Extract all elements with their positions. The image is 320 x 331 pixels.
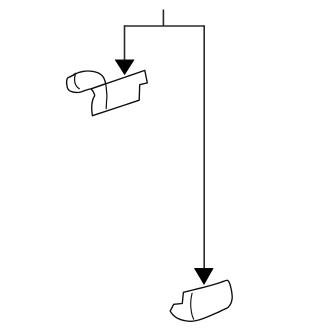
plate fold line [106, 84, 107, 109]
arrowhead left [115, 60, 134, 75]
clip part bottom-right: body [170, 280, 232, 321]
wire top stub [162, 10, 164, 27]
tube cap spur [71, 73, 76, 77]
wire left drop [124, 25, 126, 60]
bracket part upper-left: plate body [91, 70, 147, 115]
bracket part upper-left: tube/hook body [67, 71, 106, 93]
wire horizontal branch [124, 25, 204, 27]
clip fold line [191, 293, 194, 319]
wire right drop [203, 25, 205, 268]
tube end-cap inner line [75, 75, 80, 89]
arrowhead right [194, 268, 213, 284]
